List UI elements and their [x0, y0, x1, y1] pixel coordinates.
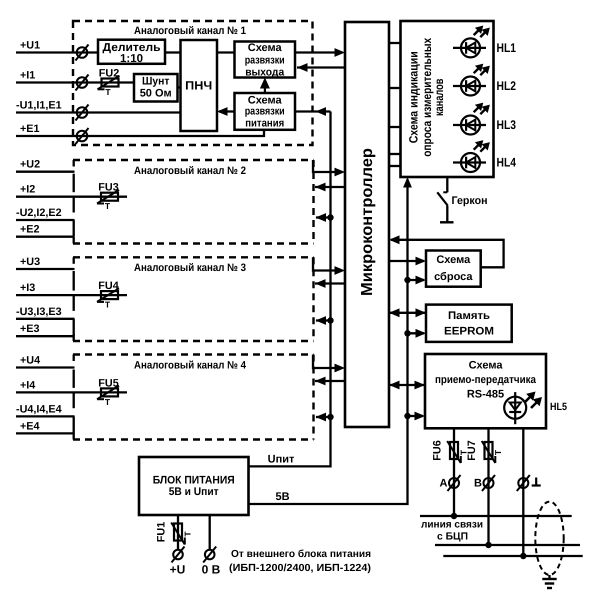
svg-text:50 Ом: 50 Ом [140, 88, 172, 100]
wire 5В rail [249, 177, 412, 504]
svg-text:Аналоговый канал № 1: Аналоговый канал № 1 [134, 25, 246, 37]
wire Uпит to канал 1 питания [295, 107, 331, 116]
label HL5 [550, 401, 567, 413]
fuse FU1 [171, 523, 192, 545]
wire +E4 [16, 432, 75, 434]
svg-text:+E4: +E4 [20, 420, 40, 432]
node +I3 label [20, 282, 35, 294]
label Аналоговый канал № 2 [134, 165, 246, 177]
LED HL4 [453, 140, 490, 172]
note ИБП models [229, 563, 371, 574]
node +U2 label [20, 159, 40, 171]
svg-text:развязки: развязки [245, 55, 285, 67]
wire B [487, 428, 489, 545]
svg-text:FU4: FU4 [98, 280, 118, 292]
junction 5В-EEPROM [404, 330, 410, 336]
label Аналоговый канал № 3 [134, 262, 246, 274]
cable shield ellipse [535, 502, 563, 575]
wire +I1 [16, 81, 134, 83]
svg-text:5В и Uпит: 5В и Uпит [169, 486, 220, 498]
svg-text:Шунт: Шунт [142, 76, 170, 88]
ground symbol [542, 575, 556, 588]
svg-text:0 В: 0 В [202, 563, 221, 577]
svg-text:HL2: HL2 [497, 79, 517, 93]
label с БЦП [437, 532, 468, 543]
wire МК to индикация 2 [389, 87, 401, 89]
node +U4 label [20, 355, 40, 367]
wire МК to канал 4 with arrow [315, 377, 345, 386]
wire канал 3 to МК with arrow [313, 257, 345, 275]
svg-text:-U1,I1,E1: -U1,I1,E1 [16, 100, 62, 112]
wire МК to канал 3 with arrow [315, 279, 345, 288]
svg-text:Т: Т [493, 449, 503, 455]
terminal +U [172, 547, 185, 563]
label HL1 [497, 41, 517, 55]
wire Uпит to канал 4 [316, 413, 334, 422]
note От внешнего блока питания [231, 549, 371, 560]
svg-text:(ИБП-1200/2400, ИБП-1224): (ИБП-1200/2400, ИБП-1224) [229, 563, 371, 574]
junction 5В-сброс [404, 277, 410, 283]
wire -U4,I4,E4 [16, 415, 75, 417]
wire МК to индикация 4 [389, 153, 401, 155]
wire earth terminal [522, 428, 524, 556]
node +E3 label [20, 323, 40, 335]
label HL4 [497, 156, 517, 170]
comm line 2 [435, 544, 580, 546]
wire -U2,I2,E2 [16, 219, 75, 221]
wire выхода to МК with arrow [295, 48, 345, 57]
wire МК to сброс with arrow [389, 257, 426, 266]
node -U2,I2,E2 label [16, 207, 62, 219]
wire -U1,I1,E1 [16, 111, 181, 113]
label HL2 [497, 79, 517, 93]
label FU4 [98, 280, 118, 292]
fuse FU7 [482, 441, 503, 463]
svg-text:Аналоговый канал № 4: Аналоговый канал № 4 [134, 359, 246, 371]
terminal A [448, 475, 461, 491]
svg-text:FU1: FU1 [156, 522, 168, 542]
svg-text:ПНЧ: ПНЧ [185, 79, 212, 93]
svg-text:Т: Т [105, 397, 111, 407]
label FU3 [98, 182, 118, 194]
label A [440, 478, 448, 490]
svg-text:+E3: +E3 [20, 323, 40, 335]
wire +I2 [16, 196, 127, 198]
wire +U1 [16, 51, 98, 53]
svg-text:FU2: FU2 [99, 68, 119, 80]
wire Шунт to ПНЧ [178, 86, 181, 88]
svg-text:БЛОК ПИТАНИЯ: БЛОК ПИТАНИЯ [153, 475, 235, 487]
label B [474, 478, 482, 490]
svg-text:От внешнего блока питания: От внешнего блока питания [231, 549, 371, 560]
terminal -U1,I1,E1 [76, 105, 89, 121]
node -U3,I3,E3 label [16, 306, 62, 318]
svg-text:+I2: +I2 [20, 184, 35, 196]
reed switch Геркон [437, 177, 453, 222]
wire МК to канал 2 with arrow [315, 183, 345, 192]
wire +E3 [16, 335, 75, 337]
dashed box Аналоговый канал № 3 [73, 257, 314, 341]
comm line 1 [420, 515, 572, 517]
node -U4,I4,E4 label [16, 403, 62, 415]
wire ПНЧ to Схема развязки выхода [217, 51, 235, 53]
dashed box Аналоговый канал № 1 [73, 21, 313, 145]
svg-text:HL1: HL1 [497, 41, 517, 55]
LED HL1 [453, 26, 490, 58]
svg-text:+U3: +U3 [20, 256, 40, 268]
junction 5В-RS485 [404, 413, 410, 419]
label +U [170, 563, 186, 577]
wire +U2 [16, 171, 75, 173]
svg-text:FU6: FU6 [432, 440, 444, 460]
svg-text:+E1: +E1 [20, 123, 40, 135]
junction earth-линия связи [520, 553, 526, 559]
reset box Схема сброса [426, 251, 481, 287]
svg-text:+U1: +U1 [20, 40, 40, 52]
svg-text:Т: Т [105, 300, 111, 310]
node +E1 label [20, 123, 40, 135]
wire joins канал 3 inputs [73, 271, 75, 336]
fuse FU3 [97, 190, 119, 211]
svg-text:Схема: Схема [469, 360, 504, 372]
svg-text:FU7: FU7 [466, 440, 478, 460]
node +E2 label [20, 224, 40, 236]
label HL3 [497, 118, 517, 132]
wire сброс to МК loop [389, 235, 504, 267]
fuse FU4 [97, 288, 119, 309]
LED HL2 [453, 64, 490, 96]
label 0 В [202, 563, 221, 577]
svg-text:каналов: каналов [432, 79, 446, 117]
LED HL5 [504, 392, 542, 425]
node +I1 label [20, 70, 35, 82]
svg-text:HL5: HL5 [550, 401, 567, 413]
wire +U4 [16, 366, 75, 368]
comm line 3 [443, 555, 582, 557]
terminal 0В [203, 547, 216, 563]
wire +U input [177, 515, 179, 550]
svg-text:5В: 5В [275, 491, 289, 503]
wire МК to выхода with arrow [297, 63, 345, 72]
svg-text:Uпит: Uпит [268, 454, 295, 466]
svg-text:-U4,I4,E4: -U4,I4,E4 [16, 403, 62, 415]
svg-text:+I3: +I3 [20, 282, 35, 294]
wire A [453, 428, 455, 516]
label FU2 [99, 68, 119, 80]
label Аналоговый канал № 1 [134, 25, 246, 37]
svg-text:A: A [440, 478, 448, 490]
svg-text:развязки: развязки [245, 106, 285, 118]
terminal +E1 [76, 128, 89, 144]
svg-text:FU5: FU5 [98, 377, 118, 389]
svg-text:+U4: +U4 [20, 355, 40, 367]
svg-text:FU3: FU3 [98, 182, 118, 194]
wire Uпит rail [249, 112, 331, 467]
label FU6 [432, 440, 444, 460]
fuse FU5 [97, 386, 119, 407]
wire -U3,I3,E3 [16, 318, 75, 320]
wire канал 2 to МК with arrow [313, 160, 345, 176]
label Аналоговый канал № 4 [134, 359, 246, 371]
svg-text:Память: Память [448, 310, 490, 322]
svg-text:Схема: Схема [248, 42, 283, 54]
label 5В [275, 491, 289, 503]
svg-text:+U: +U [170, 563, 186, 577]
svg-text:приемо-передатчика: приемо-передатчика [435, 374, 537, 386]
divider box Делитель 1:10 [98, 40, 165, 65]
dashed box Аналоговый канал № 2 [73, 160, 314, 244]
wire МК to индикация 3 [389, 126, 401, 128]
svg-text:выхода: выхода [245, 67, 285, 79]
node -U1,I1,E1 label [16, 100, 62, 112]
wire +U3 [16, 268, 75, 270]
wire канал 4 to МК with arrow [313, 355, 345, 373]
VFC box ПНЧ [181, 40, 218, 131]
svg-text:1:10: 1:10 [120, 53, 143, 65]
node +I4 label [20, 379, 35, 391]
indication box Схема индикации опроса измерительных каналов [401, 21, 494, 177]
svg-text:+I1: +I1 [20, 70, 35, 82]
output isolation box Схема развязки выхода [235, 42, 296, 79]
svg-text:HL3: HL3 [497, 118, 517, 132]
wire МК to EEPROM double arrow [389, 308, 426, 317]
memory box Память EEPROM [426, 305, 512, 342]
wire Делитель to ПНЧ [165, 51, 181, 53]
terminal +U1 [76, 45, 89, 61]
wire 5В to сброс with arrow [408, 276, 427, 285]
label линия связи [421, 520, 483, 531]
power isolation box Схема развязки питания [235, 93, 296, 130]
svg-text:RS-485: RS-485 [467, 389, 504, 401]
label FU5 [98, 377, 118, 389]
shunt box Шунт 50 Ом [134, 74, 178, 102]
junction A-линия связи [451, 513, 457, 519]
svg-text:+E2: +E2 [20, 224, 40, 236]
wire 5В to EEPROM with arrow [408, 329, 427, 338]
svg-text:В: В [474, 478, 482, 490]
svg-text:Микроконтроллер: Микроконтроллер [359, 148, 376, 296]
svg-text:Геркон: Геркон [452, 195, 488, 207]
terminal B [482, 475, 495, 491]
transceiver box Схема приемо-передатчика RS-485 [425, 354, 546, 428]
label ⊥ [532, 478, 541, 486]
svg-text:Схема индикации: Схема индикации [406, 51, 420, 143]
dashed box Аналоговый канал № 4 [73, 355, 314, 440]
wire Uпит to канал 2 [316, 213, 334, 222]
svg-text:HL4: HL4 [497, 156, 517, 170]
arrow питания to ПНЧ [217, 107, 235, 116]
wire Uпит to канал 3 [316, 316, 334, 325]
wire МК to RS-485 double arrow [389, 381, 425, 390]
svg-text:Т: Т [183, 531, 193, 537]
microcontroller box МК [345, 22, 389, 427]
wire МК to индикация 5 [389, 165, 401, 167]
svg-text:Т: Т [105, 201, 111, 211]
power supply box БЛОК ПИТАНИЯ 5В и Uпит [139, 457, 249, 515]
wire joins канал 2 inputs [73, 174, 75, 237]
svg-text:с БЦП: с БЦП [437, 532, 468, 543]
LED HL3 [453, 103, 490, 135]
fuse FU6 [447, 441, 468, 463]
svg-text:сброса: сброса [434, 271, 473, 283]
svg-text:Схема: Схема [436, 254, 471, 266]
wire +I3 [16, 294, 127, 296]
node +U3 label [20, 256, 40, 268]
arrow питания to выхода [260, 78, 270, 94]
label FU7 [466, 440, 478, 460]
node +U1 label [20, 40, 40, 52]
svg-text:-U3,I3,E3: -U3,I3,E3 [16, 306, 62, 318]
wire +E2 [16, 236, 75, 238]
svg-text:+I4: +I4 [20, 379, 35, 391]
wire +I4 [16, 391, 127, 393]
wire МК to индикация 1 [389, 42, 401, 44]
svg-text:Аналоговый канал № 2: Аналоговый канал № 2 [134, 165, 246, 177]
svg-text:питания: питания [245, 118, 284, 130]
svg-text:+U2: +U2 [20, 159, 40, 171]
junction B-линия связи [485, 542, 491, 548]
wire +E1 [16, 130, 264, 136]
wire joins канал 4 inputs [73, 370, 75, 434]
svg-text:линия связи: линия связи [421, 520, 483, 531]
label Схема индикации опроса измерительных каналов [406, 38, 446, 157]
label Геркон [452, 195, 488, 207]
label Микроконтроллер [359, 148, 376, 296]
svg-text:-U2,I2,E2: -U2,I2,E2 [16, 207, 62, 219]
terminal +I1 [76, 75, 89, 91]
node +E4 label [20, 420, 40, 432]
label Uпит [268, 454, 295, 466]
wire 5В to RS-485 with arrow [408, 412, 426, 421]
label FU1 [156, 522, 168, 542]
svg-text:Аналоговый канал № 3: Аналоговый канал № 3 [134, 262, 246, 274]
wire 0В input [209, 515, 211, 550]
terminal ⊥ [517, 475, 530, 491]
fuse FU2 [98, 76, 120, 97]
svg-text:EEPROM: EEPROM [444, 326, 494, 338]
svg-text:Т: Т [105, 87, 111, 97]
node +I2 label [20, 184, 35, 196]
